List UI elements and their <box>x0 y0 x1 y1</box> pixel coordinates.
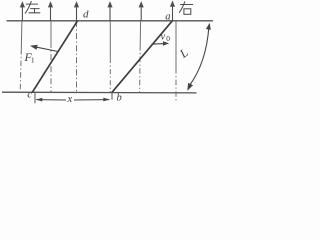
field arrow 6 <box>170 1 175 21</box>
svg-text:0: 0 <box>166 34 170 43</box>
distance x dimension arrow <box>36 98 110 102</box>
svg-text:a: a <box>165 12 170 23</box>
field arrow 1 <box>20 1 25 21</box>
svg-text:v: v <box>161 32 166 43</box>
reference dash line at right (below rail, past bottom rail) <box>175 21 177 68</box>
field arrow 3 <box>74 1 79 21</box>
rod cd <box>32 21 77 93</box>
bottom rail <box>2 91 197 94</box>
force F1 arrow <box>30 45 58 52</box>
label you (right) <box>179 2 193 15</box>
label zuo (left) <box>25 1 40 13</box>
field line 3 (dash-dot below rail) <box>76 21 78 92</box>
velocity v0 arrow <box>152 41 170 45</box>
svg-text:b: b <box>117 93 122 104</box>
svg-text:x: x <box>67 94 73 105</box>
field line 5 (dash-dot below rail) <box>139 21 141 45</box>
field arrow 5 <box>139 1 144 21</box>
field line 2 (dash-dot below rail) <box>50 21 52 42</box>
field arrow 4 <box>107 1 112 21</box>
field line 1 (dash-dot below rail) <box>20 21 23 49</box>
field line 4 (dash-dot below rail) <box>109 21 111 58</box>
top rail <box>7 20 214 22</box>
svg-text:1: 1 <box>31 56 35 65</box>
extension tick below c <box>34 92 36 103</box>
field arrow 2 <box>48 1 53 21</box>
svg-text:d: d <box>83 8 89 20</box>
extension tick below b <box>111 92 113 100</box>
svg-text:c: c <box>27 89 32 101</box>
rod ab <box>112 21 172 93</box>
length L dimension arrow <box>187 23 210 91</box>
